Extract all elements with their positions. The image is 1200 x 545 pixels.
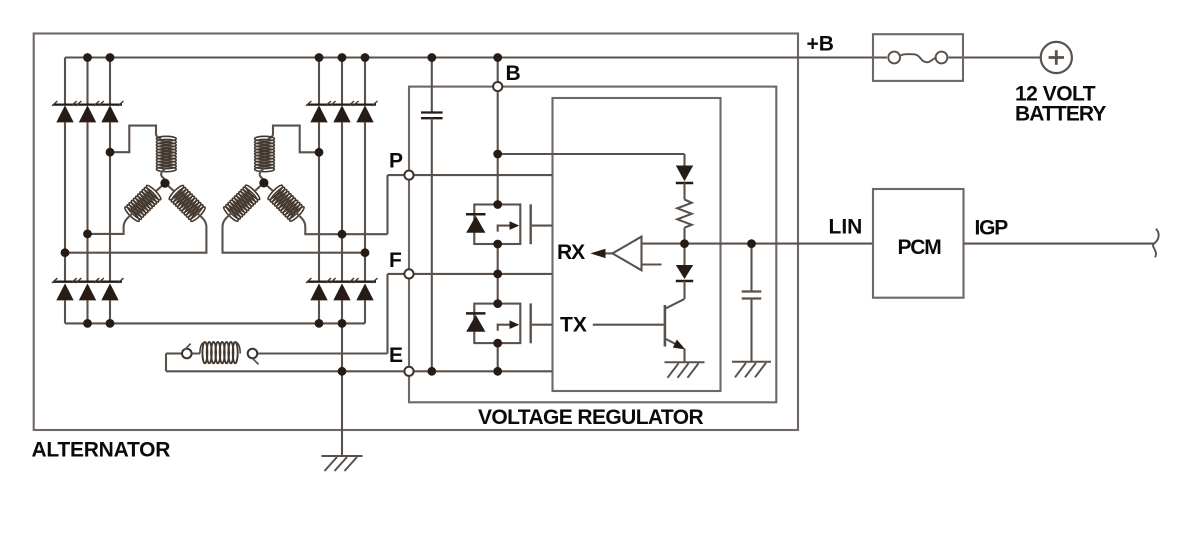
wire Q3 gate (531, 324, 553, 326)
junction (427, 53, 436, 62)
stator phase wire 6 mid segment (364, 122, 366, 281)
svg-text:BATTERY: BATTERY (1015, 102, 1106, 125)
slip ring left brush tick (185, 344, 191, 350)
junction (680, 239, 689, 248)
junction (493, 53, 502, 62)
stator phase wire 2 upper segment (86, 58, 88, 105)
node F (404, 269, 413, 278)
junction (493, 299, 502, 308)
svg-text:+B: +B (807, 32, 834, 55)
wire E rail (166, 370, 553, 372)
stator phase wire 5 lower segment (341, 300, 343, 323)
stator phase wire 6 upper segment (364, 58, 366, 105)
wire D3 to R1 (683, 183, 685, 200)
node P (404, 171, 413, 180)
wire wye to right coil (left group) (165, 183, 174, 191)
wire capacitor C1 top lead (431, 58, 433, 113)
wire top coil to wye centre (left group) (161, 169, 165, 184)
stator phase wire 4 mid segment (318, 122, 320, 281)
wire ground drop (341, 323, 343, 456)
wire left coil leg (right group) (223, 213, 366, 253)
svg-text:ALTERNATOR: ALTERNATOR (32, 439, 171, 462)
svg-text:P: P (389, 150, 403, 173)
stator coil R-left (slanted) (222, 184, 261, 223)
wire slip-ring left horiz (166, 352, 182, 354)
rectifier diode bank lower-right (avalanche) (306, 278, 378, 300)
wire R1 to RX node (683, 228, 685, 244)
alternator enclosure box (34, 34, 798, 431)
stator phase wire 5 upper segment (341, 58, 343, 105)
rectifier diode bank lower-left (avalanche) (52, 278, 124, 300)
battery plus sign (1049, 50, 1064, 65)
stator phase wire 4 lower segment (318, 300, 320, 323)
stator phase wire 1 upper segment (64, 58, 66, 105)
svg-text:F: F (389, 249, 402, 272)
op-amp U1 (RX buffer) (613, 237, 642, 271)
rectifier diode bank upper-left (avalanche) (52, 101, 124, 122)
wire Q1 emitter to ground (683, 349, 685, 363)
diode D4 (676, 265, 693, 281)
wire TX line (593, 324, 664, 326)
transistor Q1 emitter arrow (673, 340, 685, 350)
stator coil R-right (slanted) (267, 184, 306, 223)
junction (315, 319, 324, 328)
regulator IC inner box (553, 98, 721, 391)
junction (83, 53, 92, 62)
junction (493, 339, 502, 348)
stator phase wire 4 upper segment (318, 58, 320, 105)
stator phase wire 2 lower segment (86, 300, 88, 323)
junction (338, 53, 347, 62)
wire F drop (386, 274, 388, 354)
MOSFET Q3 low-side with body diode (474, 304, 520, 344)
svg-text:TX: TX (560, 314, 587, 337)
wire F line (388, 273, 553, 275)
wire top coil feed (right group) (268, 126, 319, 153)
wire RX-LIN line (642, 243, 874, 245)
svg-text:E: E (389, 344, 403, 367)
fuse element (887, 51, 949, 65)
wire wye to left coil (left group) (156, 183, 165, 191)
wire bottom rectifier bus (65, 322, 365, 324)
junction (338, 367, 347, 376)
rectifier diode bank upper-right (avalanche) (306, 101, 378, 122)
svg-text:IGP: IGP (975, 217, 1009, 240)
junction (493, 200, 502, 209)
transistor Q1 base bar (664, 305, 667, 347)
voltage regulator enclosure box (409, 87, 776, 403)
junction (106, 148, 115, 157)
slip ring right (248, 349, 258, 359)
wire capacitor C1 bottom lead (431, 118, 433, 371)
wye centre node (right group) (259, 178, 268, 187)
slip ring right brush tick (253, 359, 259, 365)
wire B+ top bus (65, 56, 1041, 58)
transistor Q1 emitter lead (666, 339, 681, 347)
capacitor C1 plates (421, 113, 443, 119)
fuse box (873, 34, 963, 81)
junction (315, 53, 324, 62)
wire capacitor C2 top lead (750, 244, 752, 292)
junction (493, 240, 502, 249)
field coil end arcs (200, 342, 240, 353)
wire mosfet source to E rail (497, 343, 499, 371)
wire B drop from bus (497, 58, 499, 87)
wire mosfet interlink (497, 244, 499, 304)
stator phase wire 2 mid segment (86, 122, 88, 281)
junction (106, 53, 115, 62)
junction (747, 239, 756, 248)
junction (493, 270, 502, 279)
svg-text:VOLTAGE REGULATOR: VOLTAGE REGULATOR (478, 406, 704, 429)
junction (61, 248, 70, 257)
resistor R1 (677, 200, 691, 228)
stator coil L-right (slanted) (168, 184, 207, 223)
wire slip-ring right lead (257, 352, 387, 354)
ground (C2) (732, 362, 771, 378)
svg-text:PCM: PCM (898, 236, 942, 259)
wire wye to left coil (right group) (255, 183, 264, 191)
battery terminal circle (1041, 42, 1072, 73)
node B (493, 82, 502, 91)
junction (315, 148, 324, 157)
junction (493, 150, 502, 159)
U1 reference stub (642, 263, 662, 265)
wire IGP (964, 243, 1155, 245)
ground (alternator case) (322, 456, 363, 471)
transistor Q1 collector lead (666, 299, 685, 308)
node E (404, 367, 413, 376)
wire Q2 gate (531, 225, 553, 227)
svg-text:LIN: LIN (829, 216, 863, 239)
wire P drop (386, 175, 388, 234)
junction (338, 319, 347, 328)
stator phase wire 3 upper segment (109, 58, 111, 105)
stator coil L-left (slanted) (123, 184, 162, 223)
stator phase wire 3 lower segment (109, 300, 111, 323)
junction (427, 367, 436, 376)
PCM box (873, 189, 964, 298)
stator phase wire 6 lower segment (364, 300, 366, 323)
stator phase wire 1 lower segment (64, 300, 66, 323)
junction (83, 230, 92, 239)
wire D4 anode lead (683, 244, 685, 265)
svg-text:RX: RX (557, 241, 585, 264)
junction (106, 319, 115, 328)
stator phase wire 1 mid segment (64, 122, 66, 281)
wye centre node (left group) (160, 179, 169, 188)
junction (361, 248, 370, 257)
stator phase wire 3 mid segment (109, 122, 111, 281)
wire slip-ring left lead (166, 354, 200, 372)
wire right coil leg (left group) (65, 213, 206, 252)
junction (361, 53, 370, 62)
wire D3 anode lead (683, 154, 685, 166)
MOSFET Q2 high-side with body diode (474, 205, 520, 245)
wire P line (388, 174, 553, 176)
junction (83, 319, 92, 328)
wire D4 to Q1 collector (683, 281, 685, 299)
RX arrowhead (590, 249, 605, 258)
wire right coil leg / P tap (right group) (296, 213, 387, 234)
wire B internal branch (498, 153, 685, 155)
field winding coil (rotor) (202, 342, 237, 363)
junction (338, 230, 347, 239)
RX arrow shaft (606, 252, 613, 254)
wire top coil feed (left group) (110, 126, 161, 153)
wire top coil to wye centre (right group) (260, 169, 264, 183)
slip ring left (182, 349, 192, 359)
junction (493, 367, 502, 376)
ground (Q1 emitter) (665, 362, 705, 378)
capacitor C2 plates (742, 292, 762, 299)
stator coil R-top (255, 136, 275, 171)
svg-text:B: B (506, 62, 521, 85)
wire left coil leg (left group) (88, 213, 133, 234)
wire capacitor C2 bottom lead (750, 299, 752, 362)
diode D3 (676, 166, 693, 184)
stator phase wire 5 mid segment (341, 122, 343, 281)
stator coil L-top (156, 136, 176, 171)
wire break squiggle (1153, 229, 1159, 257)
wire B to mosfet chain (497, 87, 499, 205)
wire wye to right coil (right group) (264, 183, 273, 191)
